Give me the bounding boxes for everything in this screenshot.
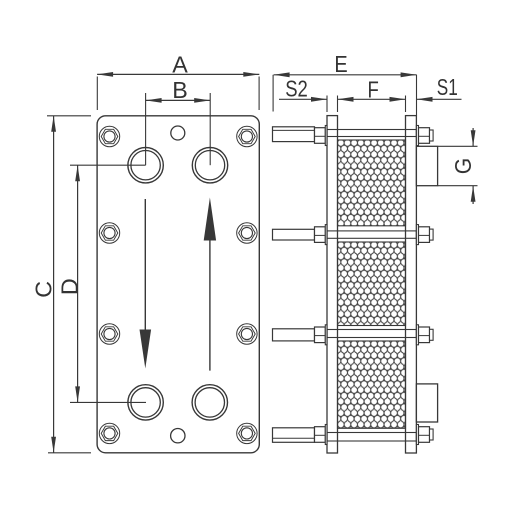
tie bolt B4: rod stub (right) — [430, 429, 434, 440]
tie bolt B1: hex nut (left) — [315, 128, 326, 144]
tie bolt B1: shaft band across pack and frame plates — [327, 130, 416, 137]
tie bolt B4: washer (left) — [325, 425, 327, 445]
dimension B (port horizontal pitch) — [146, 77, 211, 165]
tie bolt B3: hex nut (right) — [419, 327, 430, 343]
bolt hole H5 with hex nut — [237, 126, 257, 146]
svg-text:S2: S2 — [285, 76, 308, 102]
dimension C (plate height) — [30, 116, 91, 453]
svg-text:A: A — [172, 52, 188, 78]
plate pack section 3 (gasketed plates, honeycomb hatch) — [338, 341, 406, 428]
tie bolt B4: hex nut (right) — [419, 427, 430, 443]
tie bolt B1: washer (right) — [416, 126, 418, 146]
bolt hole H3 with hex nut — [99, 324, 119, 344]
tie bolt B4: threaded rod (left) — [273, 428, 315, 443]
tie bolt B4: shaft band across pack and frame plates — [327, 433, 416, 442]
svg-text:D: D — [56, 278, 82, 295]
dimension S1 (right plate protrusion) — [417, 74, 462, 102]
front view: plate pack face (rounded plate) — [97, 116, 259, 453]
connection nozzle top (side view) — [416, 146, 437, 185]
tie bolt B3: rod stub (right) — [430, 329, 434, 340]
dimension S2 (left plate + bolt protrusion) — [279, 76, 327, 112]
tie bolt B3: threaded rod (left) — [273, 329, 315, 341]
tie bolt B2: rod stub (right) — [430, 229, 434, 240]
flow arrow down (left channel) — [140, 199, 152, 369]
bolt hole H6 with hex nut — [237, 223, 257, 243]
svg-text:B: B — [172, 77, 188, 103]
svg-text:C: C — [30, 281, 56, 298]
plate pack section 2 (gasketed plates, honeycomb hatch) — [338, 242, 406, 326]
port top-left — [128, 148, 163, 183]
port top-right — [192, 148, 227, 183]
tie bolt B2: shaft band across pack and frame plates — [327, 231, 416, 238]
side view: left frame plate — [327, 116, 338, 453]
connection nozzle bottom (side view) — [416, 384, 437, 422]
tie bolt B2: washer (left) — [325, 225, 327, 245]
tie bolt B3: washer (left) — [325, 325, 327, 345]
dimension E (overall length) — [273, 51, 417, 116]
port bottom-left — [128, 385, 163, 420]
svg-text:S1: S1 — [437, 74, 458, 100]
dimension G (nozzle height) — [438, 128, 478, 204]
side view: right frame plate — [406, 116, 417, 453]
svg-text:G: G — [450, 158, 476, 174]
dimension A (plate width) — [97, 52, 259, 110]
dimension F (plate pack length) — [338, 77, 406, 113]
tie bolt B2: hex nut (left) — [315, 227, 326, 243]
tie bolt B4: washer (right) — [416, 425, 418, 445]
svg-text:E: E — [334, 51, 347, 77]
plate pack section 1 (gasketed plates, honeycomb hatch) — [338, 140, 406, 226]
small center hole top — [171, 126, 185, 140]
tie bolt B2: hex nut (right) — [419, 227, 430, 243]
tie bolt B1: washer (left) — [325, 126, 327, 146]
tie bolt B1: rod stub (right) — [430, 130, 434, 141]
tie bolt B2: threaded rod (left) — [273, 229, 315, 240]
tie bolt B3: washer (right) — [416, 325, 418, 345]
dimension D (port vertical pitch) — [56, 165, 146, 402]
bolt hole H1 with hex nut — [99, 126, 119, 146]
bolt hole H8 with hex nut — [237, 423, 257, 443]
tie bolt B1: hex nut (right) — [419, 128, 430, 144]
tie bolt B3: hex nut (left) — [315, 327, 326, 343]
flow arrow up (right channel) — [204, 198, 216, 371]
bolt hole H2 with hex nut — [99, 223, 119, 243]
port bottom-right — [192, 385, 227, 420]
bolt hole H7 with hex nut — [237, 324, 257, 344]
tie bolt B1: threaded rod (left) — [273, 127, 315, 142]
tie bolt B3: shaft band across pack and frame plates — [327, 330, 416, 338]
tie bolt B4: hex nut (left) — [315, 427, 326, 443]
small center hole bottom — [171, 429, 185, 443]
svg-text:F: F — [368, 77, 379, 103]
bolt hole H4 with hex nut — [99, 423, 119, 443]
tie bolt B2: washer (right) — [416, 225, 418, 245]
